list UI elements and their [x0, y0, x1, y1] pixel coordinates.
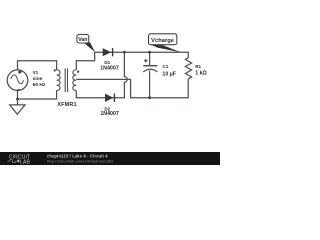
wire secondary top to Van node / top rail	[76, 52, 188, 70]
svg-text:1N4007: 1N4007	[100, 65, 119, 71]
svg-text:V1: V1	[33, 70, 39, 75]
svg-text:C1: C1	[162, 64, 168, 69]
voltage source V1	[7, 70, 28, 91]
svg-text:D1: D1	[104, 60, 110, 65]
svg-text:XFMR1: XFMR1	[57, 102, 76, 108]
wire secondary bottom to D2 row and riser with hop	[76, 52, 127, 97]
node C1 top junction	[148, 51, 151, 54]
attribution text	[47, 153, 114, 163]
svg-text:R1: R1	[195, 64, 201, 69]
capacitor C1	[143, 52, 157, 97]
diode D1	[103, 48, 113, 56]
svg-text:10 µF: 10 µF	[162, 71, 176, 77]
CircuitLab logo	[8, 154, 31, 165]
svg-text:Van: Van	[78, 37, 87, 43]
svg-text:LAB: LAB	[20, 159, 31, 165]
net label Van	[77, 35, 95, 53]
wire primary bottom rail to V1 bottom	[18, 90, 57, 99]
wire secondary center tap to bottom rail and R1 bottom	[76, 79, 188, 98]
node D1/D2 cathode junction	[123, 51, 126, 54]
svg-text:60 Hz: 60 Hz	[33, 82, 46, 88]
svg-text:1 kΩ: 1 kΩ	[195, 70, 207, 76]
net label Vcharge	[149, 34, 182, 53]
node C1 bottom junction	[148, 96, 151, 99]
node V1- ground junction	[16, 98, 19, 101]
svg-text:http://circuitlab.com/c/b9g4mn: http://circuitlab.com/c/b9g4mnm362	[47, 158, 114, 163]
ground	[10, 99, 25, 114]
resistor R1	[185, 58, 191, 79]
wire V1 top to primary top	[18, 61, 57, 70]
svg-text:sine: sine	[33, 76, 43, 82]
footer bar	[0, 152, 220, 165]
diode D2	[105, 94, 114, 102]
svg-text:1N4007: 1N4007	[100, 111, 119, 117]
transformer XFMR1	[54, 68, 79, 92]
svg-text:Vcharge: Vcharge	[151, 38, 175, 44]
